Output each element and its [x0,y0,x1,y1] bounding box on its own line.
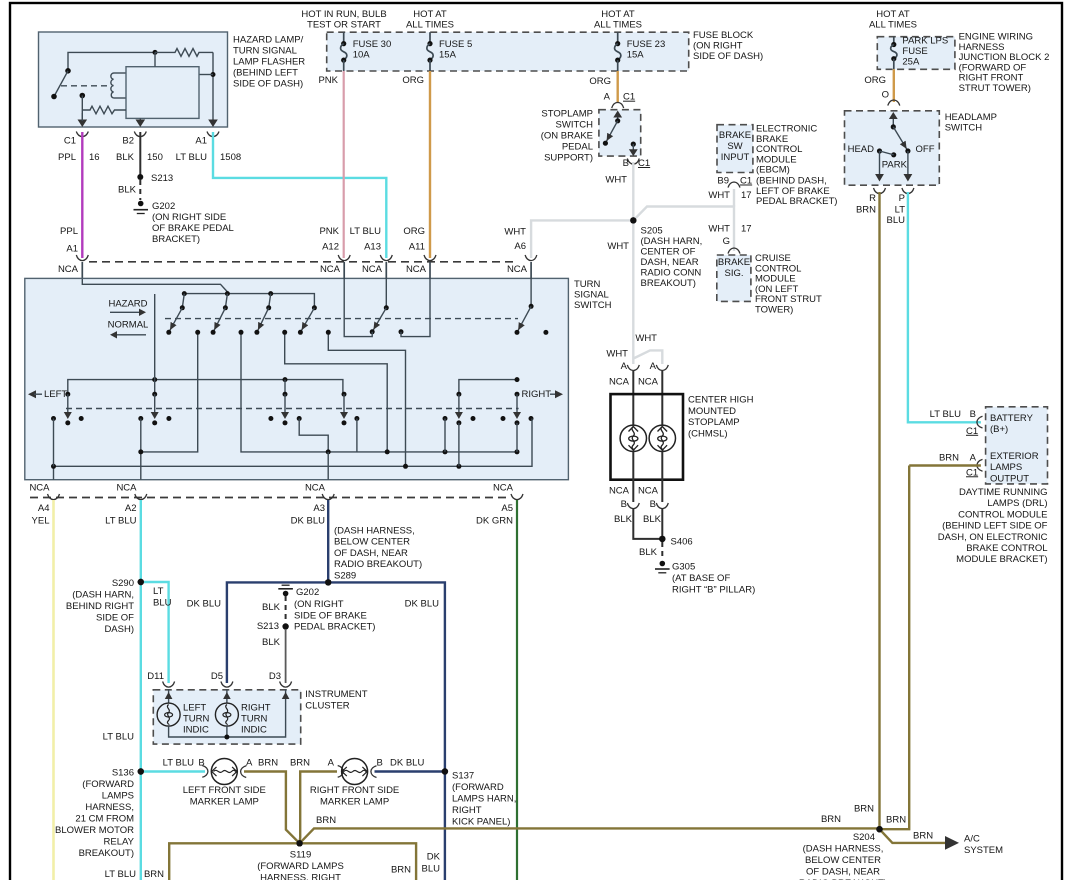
hazard bus [182,291,315,308]
svg-text:BRAKE: BRAKE [718,257,750,268]
label B DK BLU right lamp [377,758,425,769]
svg-text:A1: A1 [66,244,78,255]
svg-text:PPL: PPL [60,226,78,237]
wires out of CHMSL box [633,452,662,503]
wire unit2 stationary to rail2 [239,330,518,452]
svg-text:FUSE 23: FUSE 23 [627,39,666,50]
wire ORG fuse5 to A11 [402,71,430,258]
fuse block caption [693,30,763,62]
wire RIGHT column to rail2 [516,423,518,452]
svg-text:SUPPORT): SUPPORT) [544,153,593,164]
wire PPL into switch [81,262,83,279]
instrument cluster box [153,690,300,744]
svg-text:G202: G202 [296,587,319,598]
wire YEL A4 down [52,500,55,880]
svg-text:S136: S136 [112,768,134,779]
svg-text:BRN: BRN [290,758,310,769]
svg-text:LAMPS HARN,: LAMPS HARN, [452,794,516,805]
wire color labels row [58,152,241,163]
wire: B2 drop [139,118,141,122]
stationary contact dots row [51,416,534,421]
rail B (right horizontal) [459,377,520,394]
NCA labels CHMSL top [609,377,659,388]
svg-text:NCA: NCA [29,483,50,494]
svg-text:NCA: NCA [116,483,137,494]
wire DK BLU S289 left to D5 [227,582,328,683]
feed label HOT AT ALL TIMES (fuse 23) [594,9,642,31]
hazard feed from A1 [82,279,227,292]
svg-text:1508: 1508 [220,152,241,163]
svg-text:A11: A11 [409,242,425,253]
svg-text:MOUNTED: MOUNTED [688,406,736,417]
svg-text:G: G [723,236,730,247]
svg-text:D3: D3 [269,671,281,682]
D pin labels [147,671,281,682]
wire 458.9 column to rail3 [458,423,460,466]
svg-text:(EBCM): (EBCM) [756,165,790,176]
svg-text:INSTRUMENT: INSTRUMENT [305,689,367,700]
wire PNK fuse30 to A12 [318,71,343,258]
svg-text:BLK: BLK [614,514,633,525]
svg-text:LAMPS: LAMPS [990,462,1022,473]
svg-text:LT BLU: LT BLU [103,732,134,743]
svg-text:A12: A12 [322,242,339,253]
svg-text:PEDAL BRACKET): PEDAL BRACKET) [294,622,375,633]
wire unit4 stationary route R2 [326,330,406,467]
wire A11 jog to unit5 stationary [401,279,430,337]
wire DK BLU A3 to S289 [327,500,329,582]
svg-text:O: O [882,89,889,100]
bottom NCA labels [29,483,513,494]
flasher inner module box [126,67,199,119]
svg-text:BRAKE: BRAKE [719,130,751,141]
svg-text:15A: 15A [439,50,457,61]
headlamp switch box [845,111,940,185]
svg-text:BLK: BLK [639,547,658,558]
svg-text:P: P [899,193,905,204]
wire ORG into switch (A11 entry) [429,262,431,279]
svg-text:16: 16 [89,152,100,163]
DK BLU bottom label [422,852,441,875]
svg-text:B: B [198,758,204,769]
svg-text:RIGHT: RIGHT [241,703,271,714]
svg-text:SWITCH: SWITCH [945,123,983,134]
svg-text:B: B [621,499,627,510]
splice S137 [442,768,448,774]
connector cup PPL at NCA row [76,255,88,261]
svg-text:DK BLU: DK BLU [187,599,221,610]
headlamp switch pins R P [856,188,914,226]
svg-text:NCA: NCA [406,264,427,275]
svg-text:BLK: BLK [116,152,135,163]
svg-text:NCA: NCA [609,377,630,388]
svg-text:LEFT FRONT SIDE: LEFT FRONT SIDE [183,785,266,796]
connector cups CHMSL top [627,365,668,371]
svg-text:C1: C1 [64,136,76,147]
svg-text:RIGHT “B” PILLAR): RIGHT “B” PILLAR) [672,585,755,596]
svg-text:BRN: BRN [939,452,959,463]
svg-text:BRN: BRN [144,869,164,880]
svg-text:A3: A3 [313,503,325,514]
svg-text:21 CM FROM: 21 CM FROM [75,814,134,825]
wire WHT branch to CHMSL A right [633,350,662,364]
dashed mechanical link to coil [61,85,109,87]
svg-text:SW: SW [727,141,742,152]
svg-text:NCA: NCA [58,264,79,275]
wire BLK dashed G202 to S213b [262,596,286,620]
LEFT indicator [28,389,70,400]
svg-text:B: B [650,499,656,510]
label LT BLU B at DRL battery input [930,409,983,437]
svg-text:RIGHT: RIGHT [522,389,552,400]
svg-text:(BEHIND LEFT SIDE OF: (BEHIND LEFT SIDE OF [942,521,1048,532]
svg-text:G202: G202 [152,201,175,212]
switch blade (flasher contacts) [51,68,71,99]
splice S289 [325,579,331,585]
cruise control BRAKE SIG box [717,255,751,301]
S204 caption [799,832,887,880]
splice S205 [630,217,636,223]
switch unit 5 (A13) [370,279,404,334]
svg-text:A2: A2 [125,503,137,514]
svg-text:(DASH HARN,: (DASH HARN, [72,590,134,601]
svg-text:LAMP FLASHER: LAMP FLASHER [233,57,305,68]
svg-text:ALL TIMES: ALL TIMES [406,20,454,31]
svg-text:(B+): (B+) [990,424,1008,435]
svg-text:HOT AT: HOT AT [876,9,910,20]
switch unit 2 [211,294,228,335]
svg-text:SIDE OF DASH): SIDE OF DASH) [693,51,763,62]
node: right junction [211,72,216,77]
svg-text:HARNESS, RIGHT: HARNESS, RIGHT [260,873,341,880]
svg-text:C1: C1 [740,176,752,187]
svg-text:(ON RIGHT: (ON RIGHT [693,41,743,52]
svg-text:WHT: WHT [708,224,730,235]
wire BLK left to S406 [633,508,662,539]
relay coil [111,73,126,98]
svg-text:HEADLAMP: HEADLAMP [945,112,997,123]
svg-text:LT BLU: LT BLU [163,758,194,769]
splice S213 (cluster) [257,621,289,632]
svg-text:S289: S289 [334,570,356,581]
svg-text:C1: C1 [623,92,635,103]
svg-text:BLU: BLU [887,215,906,226]
BLK labels [614,514,662,525]
turn signal switch caption [574,279,612,311]
wire WHT S205 to EBCM/cruise [633,207,734,252]
svg-text:NCA: NCA [493,483,514,494]
svg-text:HOT AT: HOT AT [413,9,447,20]
wire BLK right to S406 [661,508,663,539]
wire BRN right marker to S119 [300,772,337,844]
upper mechanical dashed line [165,318,518,320]
svg-text:BRN: BRN [391,865,411,876]
svg-text:(DASH HARNESS,: (DASH HARNESS, [803,844,884,855]
BRN label above S119 [316,815,336,826]
labels PPL A1 above NCA [60,226,78,255]
svg-text:(DASH HARN,: (DASH HARN, [641,236,703,247]
svg-text:A: A [246,758,253,769]
svg-text:S119: S119 [290,850,311,861]
stoplamp switch pin B C1 [623,158,651,169]
svg-text:WHT: WHT [607,241,629,252]
headlamp switch caption [945,112,997,134]
svg-text:FUSE BLOCK: FUSE BLOCK [693,30,754,41]
svg-text:CENTER HIGH: CENTER HIGH [688,395,754,406]
splice S204 [876,826,882,832]
splice S119 [296,840,302,846]
DRL control module box [986,407,1048,484]
stoplamp switch internals [603,111,638,157]
EBCM caption [756,124,837,208]
wire BLK S213 to D3 [262,629,286,683]
svg-text:RELAY: RELAY [104,837,135,848]
svg-text:FUSE 30: FUSE 30 [353,39,392,50]
svg-text:FUSE: FUSE [902,46,927,57]
svg-text:SIDE OF BRAKE: SIDE OF BRAKE [294,611,367,622]
wire A12 jog to unit5 contact [344,279,372,337]
svg-text:DK BLU: DK BLU [291,516,325,527]
svg-text:BLK: BLK [262,602,281,613]
svg-text:B2: B2 [122,136,134,147]
svg-text:DASH): DASH) [104,624,134,635]
svg-text:(FORWARD LAMPS: (FORWARD LAMPS [257,861,344,872]
svg-text:CENTER OF: CENTER OF [641,247,696,258]
node: top junction [153,50,158,55]
rail A (left horizontal) [68,377,343,394]
svg-text:BLK: BLK [262,637,281,648]
svg-text:LT BLU: LT BLU [176,152,207,163]
svg-text:NCA: NCA [609,485,630,496]
wire LT BLU headlamp P down to DRL battery input [908,192,981,422]
CHMSL caption [688,395,754,440]
svg-text:TOWER): TOWER) [755,305,793,316]
svg-text:10A: 10A [353,50,371,61]
svg-text:MARKER LAMP: MARKER LAMP [320,797,389,808]
svg-text:ALL TIMES: ALL TIMES [594,20,642,31]
svg-text:BLK: BLK [118,185,137,196]
svg-text:S213: S213 [151,173,173,184]
wire BRN headlamp R down to S204 [878,192,880,829]
fuse 5 15A [427,32,472,71]
wire ORG fuse23 to stoplamp switch [589,71,617,102]
wire LT BLU S290 branch to D11 [141,582,169,683]
B pin labels + cups CHMSL bottom [621,499,669,510]
svg-text:S137: S137 [452,771,474,782]
feed label HOT AT ALL TIMES (fuse 5) [406,9,454,31]
svg-text:S204: S204 [853,832,875,843]
svg-text:KICK PANEL): KICK PANEL) [452,817,510,828]
svg-text:CLUSTER: CLUSTER [305,700,349,711]
svg-text:YEL: YEL [32,516,50,527]
wire 356.9 to rail2 [356,419,358,452]
svg-text:CONTROL MODULE: CONTROL MODULE [958,509,1047,520]
wire 53.5 contact to rail3 [53,419,55,467]
wire WHT S205 down to CHMSL A left [632,220,634,364]
svg-text:RADIO CONN: RADIO CONN [641,268,702,279]
svg-text:STOPLAMP: STOPLAMP [688,417,740,428]
svg-text:BRAKE CONTROL: BRAKE CONTROL [966,543,1047,554]
wire unit3 stationary route R1 [282,330,387,452]
svg-text:A1: A1 [195,136,207,147]
connector cups cluster [163,682,292,688]
svg-text:C1: C1 [638,158,650,169]
svg-text:OF DASH, NEAR: OF DASH, NEAR [334,548,408,559]
output pin labels [32,503,514,527]
right turn indicator bulb [215,703,270,736]
label A BRN left lamp [246,758,278,769]
svg-text:A5: A5 [501,503,513,514]
svg-text:PARK LPS: PARK LPS [902,36,948,47]
HAZARD / NORMAL labels [108,299,149,339]
svg-text:BRN: BRN [913,831,933,842]
wire BLK B2 to S213 [139,132,141,177]
svg-text:A/C: A/C [964,834,980,845]
svg-text:S213: S213 [257,621,279,632]
svg-text:WHT: WHT [708,190,730,201]
wire: inner box top feed [154,52,156,66]
wire 299.2 contact to A3 junction [299,419,328,452]
svg-text:SWITCH: SWITCH [574,300,612,311]
pin labels C1 B2 A1 [64,136,207,147]
EBCM brake sw input box [717,125,753,173]
lower mechanical dashed line [66,408,519,410]
wire LT BLU into switch (A13 entry) [385,262,387,279]
svg-text:PEDAL: PEDAL [562,142,593,153]
hazard/turn signal flasher module box [39,32,228,127]
DK BLU label right column [405,599,439,610]
park lps fuse 25A [891,36,949,70]
svg-text:WHT: WHT [635,333,657,344]
svg-text:HOT AT: HOT AT [601,9,635,20]
S290 caption [66,578,134,635]
svg-text:S290: S290 [112,578,134,589]
svg-text:A: A [604,92,611,103]
svg-text:BLU: BLU [153,598,172,609]
connector cups below flasher [76,132,219,137]
svg-text:DAYTIME RUNNING: DAYTIME RUNNING [959,487,1048,498]
svg-text:ORG: ORG [864,75,886,86]
output cups [48,494,524,500]
svg-text:(FORWARD: (FORWARD [82,779,134,790]
svg-text:OFF: OFF [916,144,935,155]
svg-text:STRUT TOWER): STRUT TOWER) [959,83,1031,94]
svg-text:C1: C1 [966,426,978,437]
wires into CHMSL box [633,371,662,425]
svg-text:ORG: ORG [589,76,611,87]
svg-text:LAMPS (DRL): LAMPS (DRL) [987,498,1047,509]
flasher caption [233,35,305,90]
LT BLU branch label [153,586,172,609]
svg-text:G305: G305 [672,562,695,573]
svg-text:B: B [377,758,383,769]
svg-text:15A: 15A [627,50,645,61]
svg-text:EXTERIOR: EXTERIOR [990,451,1039,462]
svg-text:LT BLU: LT BLU [105,516,136,527]
switch unit 6 (A8) [515,279,549,335]
engine junction caption [959,32,1050,95]
svg-text:BRN: BRN [886,815,906,826]
turn signal switch box [25,278,569,479]
svg-text:INDIC: INDIC [241,725,267,736]
svg-text:(ON RIGHT SIDE: (ON RIGHT SIDE [152,212,226,223]
ground G202 [134,201,234,245]
labels WHT A at CHMSL [606,333,657,372]
wire A3 exit [327,452,329,480]
svg-text:HOT IN RUN, BULB: HOT IN RUN, BULB [301,9,386,20]
svg-text:HAZARD: HAZARD [108,299,147,310]
svg-text:LT: LT [153,586,164,597]
NCA labels CHMSL bottom [609,485,659,496]
svg-text:NORMAL: NORMAL [108,320,149,331]
svg-text:HEAD: HEAD [848,144,875,155]
svg-text:S205: S205 [641,226,663,237]
svg-text:DASH, NEAR: DASH, NEAR [641,257,699,268]
svg-text:RIGHT FRONT SIDE: RIGHT FRONT SIDE [310,785,399,796]
svg-text:C1: C1 [966,467,978,478]
rail A drop at 154.7 [154,380,156,395]
cluster internal wires with arrows [165,689,290,703]
DRL caption [938,487,1048,565]
svg-text:INDIC: INDIC [183,725,209,736]
wire PPL C1 to A1 [81,132,83,258]
svg-text:TURN SIGNAL: TURN SIGNAL [233,46,297,57]
S137 caption [452,771,516,828]
svg-text:HAZARD LAMP/: HAZARD LAMP/ [233,35,304,46]
svg-text:FUSE 5: FUSE 5 [439,39,472,50]
svg-text:(AT BASE OF: (AT BASE OF [672,573,730,584]
flasher internal top wire [68,52,155,70]
svg-text:A6: A6 [514,241,526,252]
feed label HOT IN RUN [301,9,386,31]
wire 445 to rail2 [444,419,446,452]
svg-text:DK: DK [427,852,441,863]
wire BLK dashed to G202 [118,180,140,200]
svg-text:RIGHT: RIGHT [452,805,482,816]
wire A2 column [138,419,143,480]
headlamp switch internals [848,112,935,182]
bottom dashed connector line [30,497,510,499]
svg-text:NCA: NCA [320,264,341,275]
S205 caption [641,226,703,290]
svg-text:BELOW CENTER: BELOW CENTER [805,855,881,866]
LT BLU label above S136 [103,732,134,743]
wire LT BLU A2 down [140,500,142,880]
right front side marker lamp [310,759,399,808]
svg-text:(CHMSL): (CHMSL) [688,428,728,439]
svg-text:LEFT: LEFT [183,703,206,714]
DRL box internal labels [990,413,1039,485]
svg-text:ORG: ORG [403,226,425,237]
splice S136 [138,768,144,774]
rail 2 junction dots [326,449,520,454]
svg-text:LT: LT [895,205,906,216]
label BRN A at DRL exterior output [939,452,983,478]
svg-text:OF DASH, NEAR: OF DASH, NEAR [806,867,880,878]
S289 caption [334,526,422,582]
switch unit 3 [254,294,271,335]
svg-text:NCA: NCA [638,377,659,388]
svg-text:D5: D5 [211,671,223,682]
RIGHT indicator [515,389,564,400]
svg-text:LT BLU: LT BLU [350,226,381,237]
svg-text:A13: A13 [364,242,381,253]
dashed connector line (top NCA row) [89,261,515,263]
svg-text:TURN: TURN [574,279,601,290]
selector columns crossing lower dashed line [152,392,461,397]
wire WHT into switch (A8 entry) [530,262,532,279]
ground G202 (cluster) [278,585,375,632]
